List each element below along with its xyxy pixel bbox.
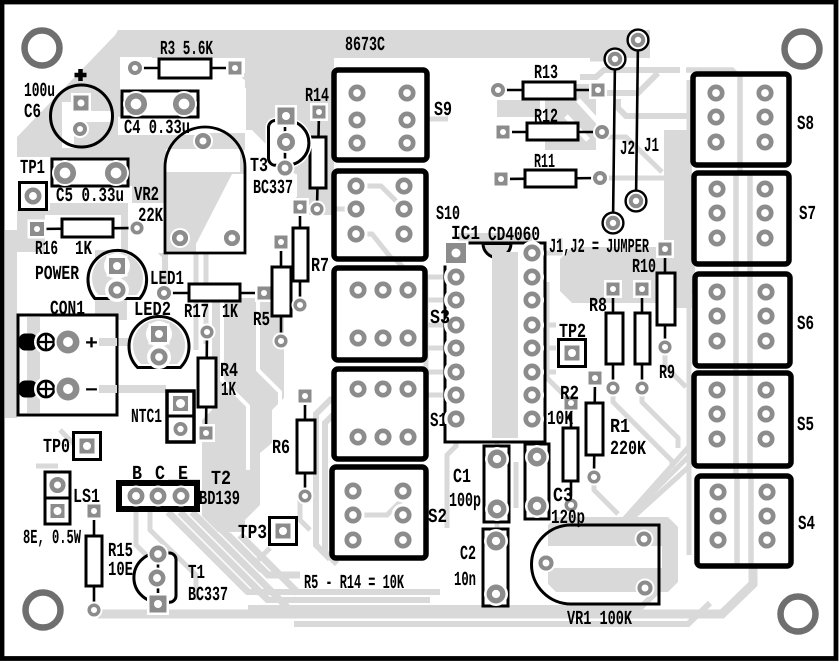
- label J1 J2 jumper: [549, 236, 649, 259]
- resistor R11: [492, 151, 609, 188]
- wire pour near R13 R12: [497, 84, 600, 150]
- svg-text:TP1: TP1: [20, 157, 45, 180]
- resistor R15: [85, 502, 133, 619]
- svg-text:S9: S9: [434, 99, 452, 122]
- svg-text:C3: C3: [553, 485, 573, 508]
- svg-text:10E: 10E: [108, 559, 133, 582]
- svg-text:S7: S7: [799, 203, 816, 226]
- svg-text:S4: S4: [798, 513, 815, 536]
- capacitor C3: [525, 444, 585, 530]
- switch S9: [334, 70, 452, 160]
- svg-text:R7: R7: [311, 255, 329, 278]
- switch S4: [697, 476, 815, 566]
- svg-text:NTC1: NTC1: [131, 406, 162, 429]
- svg-text:R1: R1: [610, 416, 630, 439]
- svg-text:S2: S2: [428, 506, 447, 529]
- wire pour near R8 R9 R10: [560, 80, 695, 555]
- test point TP2: [559, 321, 587, 367]
- resistor R9: [633, 280, 675, 397]
- switch S3: [334, 268, 450, 360]
- capacitor C5: [52, 159, 129, 208]
- svg-text:+: +: [85, 333, 98, 356]
- svg-text:C1: C1: [453, 466, 471, 489]
- svg-text:R3 5.6K: R3 5.6K: [160, 38, 213, 61]
- wire R14 to S10: [238, 70, 404, 286]
- svg-text:R14: R14: [305, 85, 329, 108]
- connector CON1: [18, 298, 117, 415]
- svg-text:100u: 100u: [24, 80, 55, 103]
- svg-text:C6: C6: [24, 101, 41, 124]
- svg-text:S10: S10: [436, 203, 460, 226]
- svg-text:IC1: IC1: [451, 223, 480, 246]
- svg-text:220K: 220K: [610, 438, 646, 461]
- capacitor C2: [454, 529, 508, 606]
- svg-text:R11: R11: [534, 151, 555, 174]
- wire traces near R17: [196, 248, 206, 350]
- mounting hole bottom-right: [781, 597, 816, 632]
- mounting hole top-left: [25, 31, 60, 66]
- wire stubs below R8 R9: [547, 282, 686, 514]
- svg-text:J2: J2: [620, 138, 635, 161]
- resistor R10: [632, 240, 675, 356]
- switch S6: [695, 274, 814, 366]
- svg-text:C5 0.33u: C5 0.33u: [56, 185, 124, 208]
- svg-text:BC337: BC337: [188, 584, 228, 607]
- speaker terminal LS1: [23, 472, 100, 550]
- preset VR2: [134, 127, 246, 253]
- svg-text:T3: T3: [250, 155, 268, 178]
- svg-text:R16: R16: [35, 238, 58, 261]
- switch S7: [694, 173, 816, 264]
- switch S1: [334, 369, 447, 459]
- resistor R8: [589, 280, 623, 397]
- test point TP3: [238, 518, 297, 546]
- resistor R13: [489, 62, 607, 99]
- mounting hole top-right: [785, 32, 820, 67]
- svg-text:POWER: POWER: [35, 263, 79, 286]
- svg-text:10n: 10n: [454, 569, 476, 592]
- svg-text:C2: C2: [460, 543, 476, 566]
- transistor T2: [119, 463, 240, 511]
- label R5-R14: [304, 572, 404, 595]
- svg-text:R9: R9: [659, 362, 675, 385]
- wire pour top band: [5, 30, 712, 418]
- svg-text:1K: 1K: [222, 301, 238, 324]
- wire traces below IC1: [447, 428, 718, 568]
- test point TP0: [43, 433, 101, 460]
- wire pour under VR1: [531, 505, 678, 592]
- capacitor C1: [449, 446, 509, 522]
- potentiometer VR1: [532, 525, 660, 631]
- LED LED1: [88, 250, 184, 302]
- svg-text:8673C: 8673C: [345, 34, 385, 57]
- resistor R16: [28, 219, 146, 261]
- svg-text:R10: R10: [632, 256, 656, 279]
- svg-text:J1: J1: [644, 135, 659, 158]
- svg-text:R8: R8: [589, 295, 607, 318]
- svg-text:VR2: VR2: [134, 184, 159, 207]
- IC IC1 CD4060: [444, 223, 546, 442]
- board code 8673C: [345, 34, 385, 57]
- svg-text:TP0: TP0: [43, 436, 70, 459]
- svg-text:E: E: [178, 463, 188, 486]
- svg-text:100p: 100p: [449, 490, 481, 513]
- wire traces at CON1: [36, 59, 616, 600]
- resistor R1: [586, 369, 647, 486]
- resistor R17: [155, 284, 273, 324]
- svg-text:S5: S5: [797, 414, 814, 437]
- svg-text:R6: R6: [272, 437, 290, 460]
- svg-text:−: −: [85, 380, 98, 403]
- svg-text:R5: R5: [253, 309, 270, 332]
- svg-text:LED2: LED2: [134, 299, 171, 322]
- svg-text:8E, 0.5W: 8E, 0.5W: [23, 527, 81, 550]
- svg-text:S1: S1: [430, 410, 447, 433]
- resistor R4: [197, 324, 238, 443]
- svg-text:1K: 1K: [75, 238, 92, 261]
- capacitor C6: [24, 69, 113, 148]
- wire bottom bus: [98, 512, 753, 624]
- svg-text:S3: S3: [430, 307, 450, 330]
- svg-text:R12: R12: [534, 106, 558, 129]
- svg-text:10K: 10K: [547, 408, 573, 431]
- svg-text:1K: 1K: [221, 379, 236, 402]
- svg-text:R5 - R14 = 10K: R5 - R14 = 10K: [304, 572, 404, 595]
- capacitor C4: [122, 91, 198, 140]
- jumper J2: [603, 49, 635, 234]
- resistor R7: [291, 198, 329, 314]
- wire pour middle slab: [202, 58, 341, 593]
- wire traces behind J1 J2: [600, 130, 692, 308]
- svg-text:S8: S8: [797, 113, 814, 136]
- wire staircase near S5: [580, 443, 692, 565]
- test point TP1: [20, 157, 47, 210]
- resistor R6: [272, 387, 315, 505]
- mounting hole bottom-left: [26, 593, 61, 628]
- switch S2: [332, 467, 447, 558]
- svg-text:VR1 100K: VR1 100K: [567, 608, 632, 631]
- svg-text:R13: R13: [534, 62, 558, 85]
- svg-text:T1: T1: [188, 562, 205, 585]
- label POWER: [35, 263, 79, 286]
- resistor R3: [126, 38, 244, 78]
- svg-text:B: B: [132, 463, 142, 486]
- jumper J1: [626, 30, 659, 212]
- svg-text:TP3: TP3: [238, 522, 267, 545]
- transistor T1: [134, 544, 228, 616]
- svg-text:S6: S6: [797, 313, 814, 336]
- transistor T3: [250, 105, 309, 200]
- svg-text:BC337: BC337: [253, 177, 293, 200]
- svg-text:BD139: BD139: [199, 488, 240, 511]
- thermistor NTC1: [131, 391, 194, 442]
- LED LED2: [129, 299, 189, 369]
- switch S5: [694, 373, 814, 466]
- wire right column connectors: [427, 70, 750, 540]
- svg-text:CD4060: CD4060: [488, 224, 540, 247]
- svg-text:R17: R17: [184, 301, 209, 324]
- resistor R12: [494, 106, 611, 141]
- resistor R2: [547, 383, 580, 514]
- resistor R14: [305, 85, 329, 218]
- resistor R5: [253, 233, 291, 350]
- switch S8: [693, 74, 814, 165]
- svg-text:C: C: [155, 463, 165, 486]
- svg-text:TP2: TP2: [559, 321, 586, 344]
- svg-text:R2: R2: [560, 383, 579, 406]
- switch S10: [334, 171, 460, 259]
- wire pour at IC1: [426, 233, 560, 438]
